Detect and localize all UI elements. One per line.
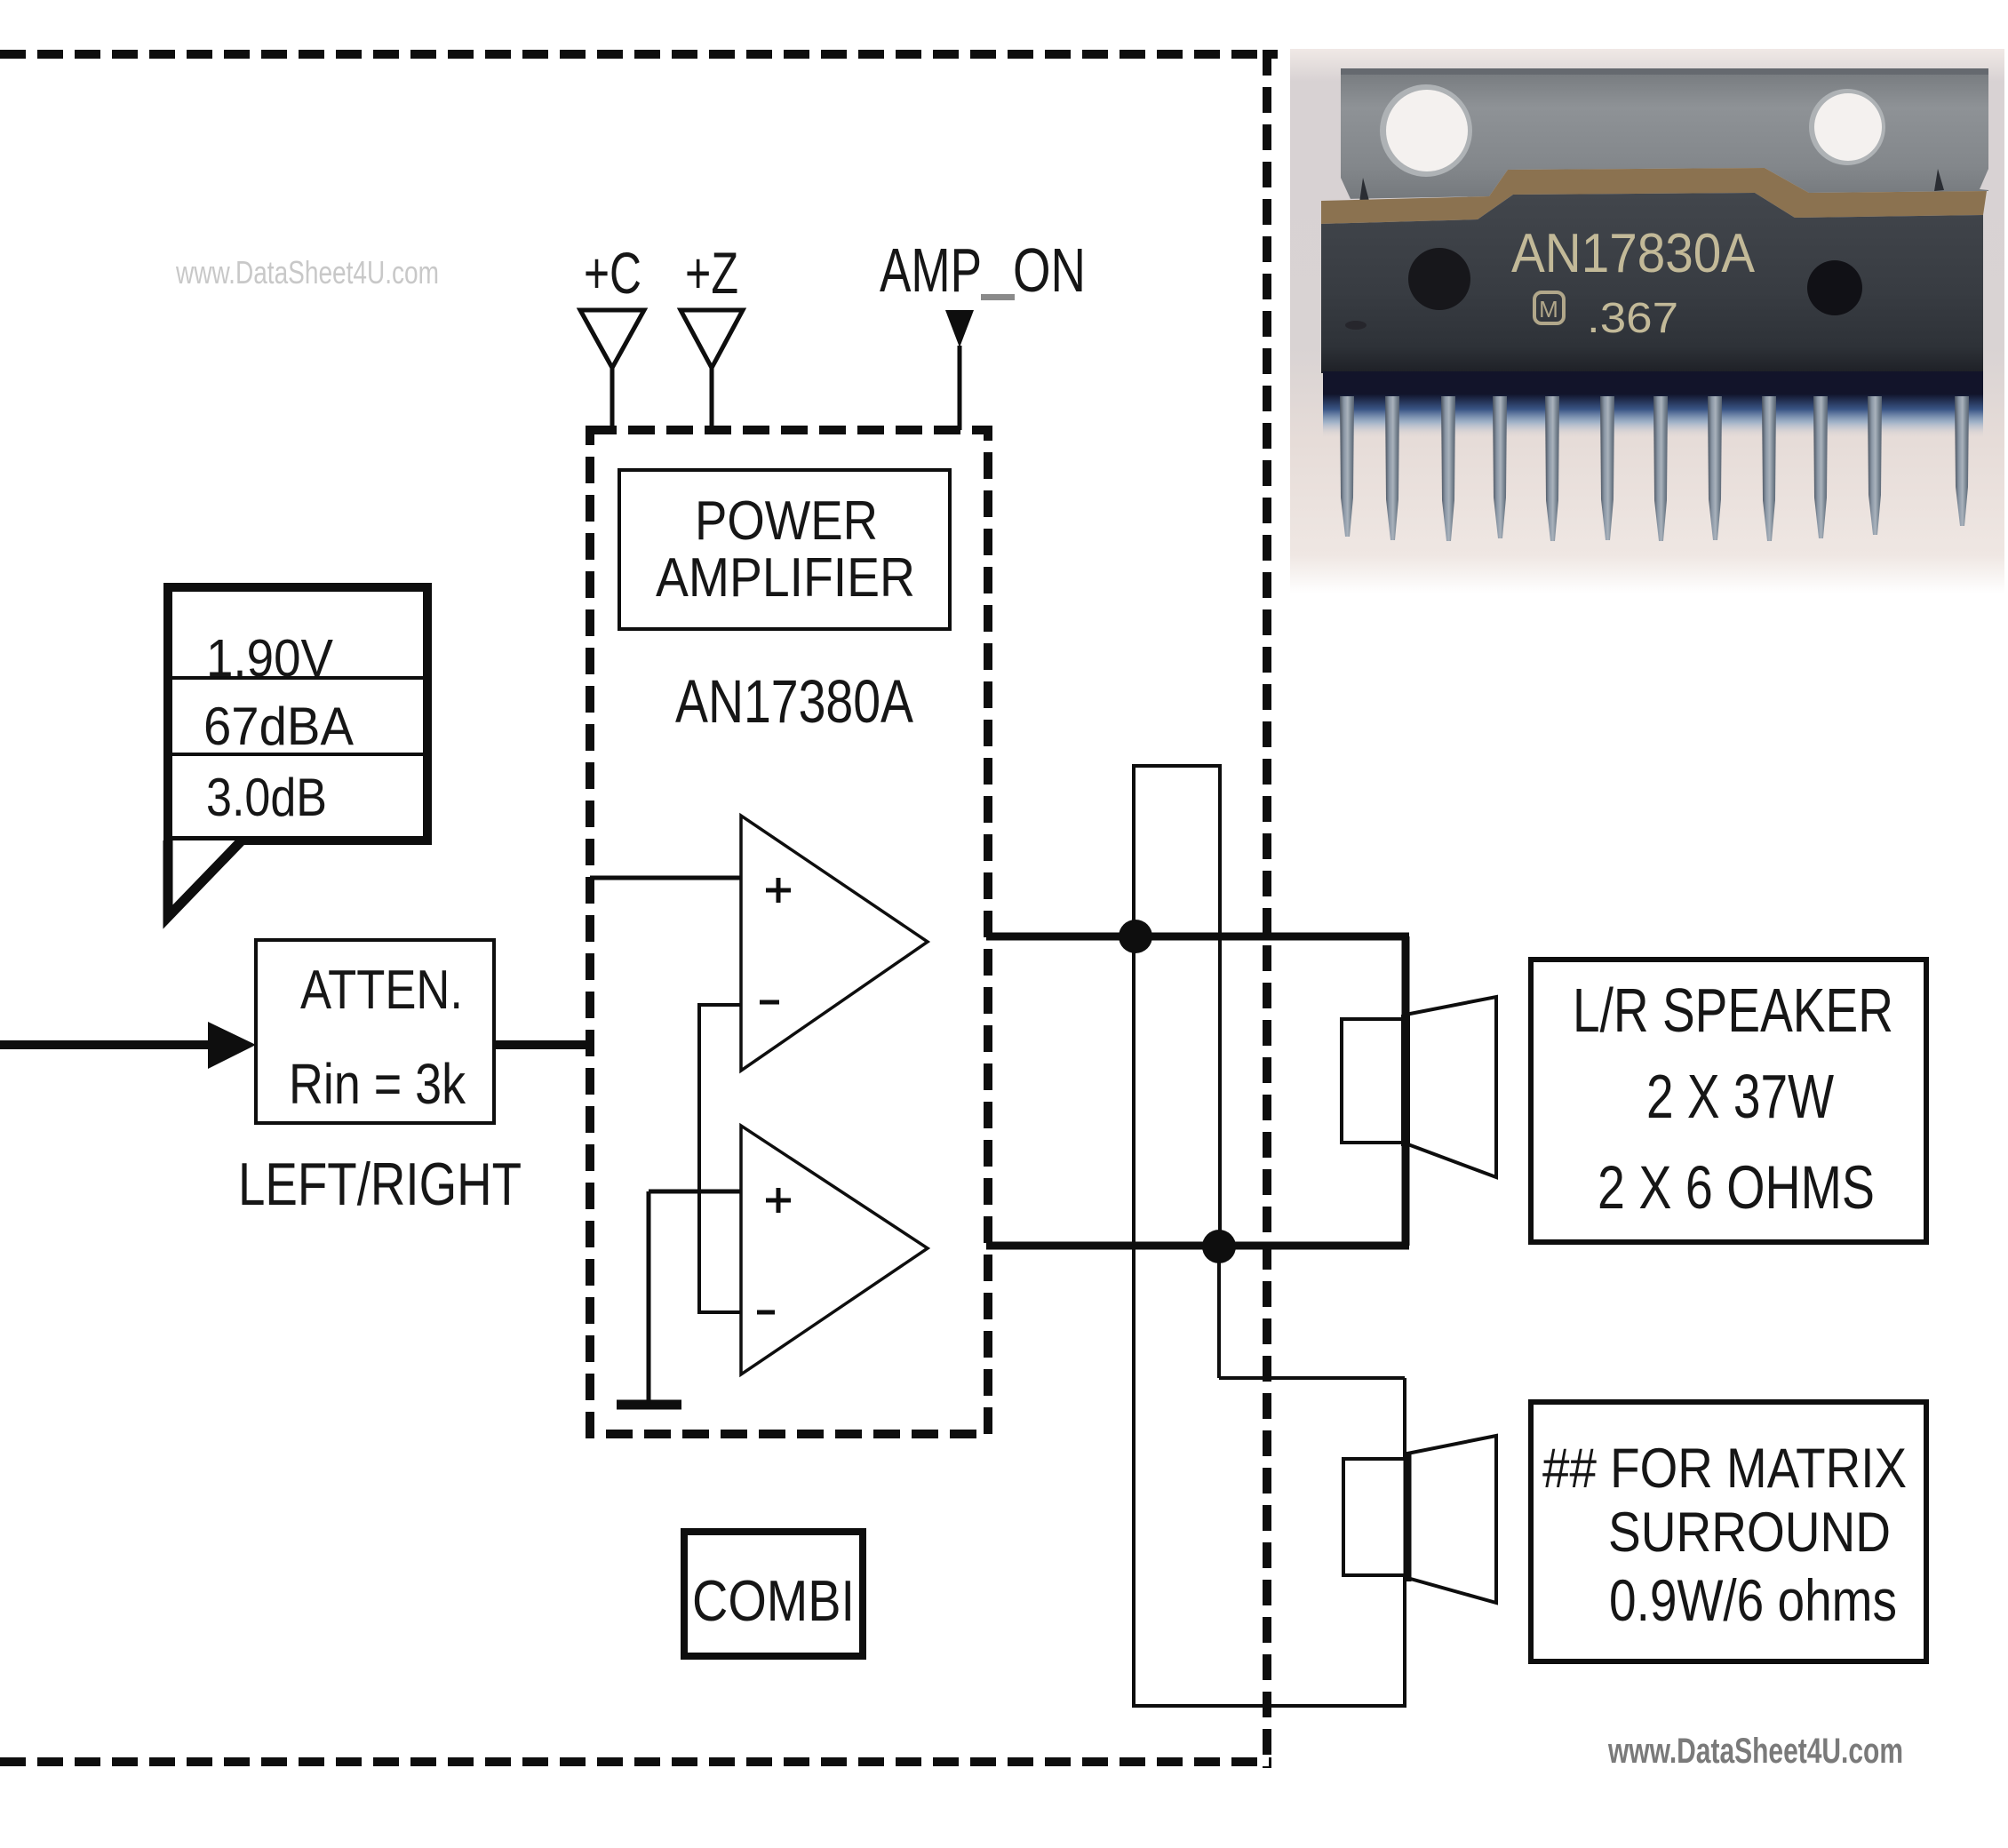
svg-text:0.9W/6 ohms: 0.9W/6 ohms: [1609, 1567, 1897, 1633]
svg-text:2 X 6 OHMS: 2 X 6 OHMS: [1598, 1153, 1875, 1222]
wire: surround loop top bar: [1134, 764, 1220, 768]
svg-text:+C: +C: [584, 240, 641, 306]
svg-text:2 X 37W: 2 X 37W: [1646, 1062, 1834, 1131]
tab hole left: [1380, 84, 1472, 177]
wire: input line left: [0, 1040, 213, 1049]
svg-text:3.0dB: 3.0dB: [206, 768, 327, 827]
svg-text:www.DataSheet4U.com: www.DataSheet4U.com: [1607, 1732, 1903, 1771]
wire: output 1 (top channel): [986, 933, 1409, 941]
pin indent left: [1408, 248, 1470, 310]
photo background: [1290, 49, 2004, 593]
logo M: [1534, 292, 1564, 323]
svg-text:1.90V: 1.90V: [206, 629, 334, 688]
svg-text:Rin = 3k: Rin = 3k: [289, 1052, 466, 1116]
box L/R SPEAKER: [1531, 960, 1926, 1242]
wire: outer dashed frame bottom: [0, 1757, 1271, 1766]
wire: to ground: [647, 1191, 651, 1400]
wire: ATTEN output to amp box: [496, 1040, 590, 1049]
wire: output 2 (bottom channel): [986, 1242, 1409, 1250]
svg-text:67dBA: 67dBA: [203, 697, 354, 756]
wire: speaker drop vertical: [1402, 936, 1410, 1246]
junction dot on output 1: [1119, 920, 1152, 953]
pins: [1340, 396, 1969, 541]
pin indent right: [1807, 260, 1862, 315]
signal AMP_ON: [880, 235, 1086, 430]
wire: op-amp1 + input: [590, 876, 741, 880]
power pin +Z: [681, 240, 743, 430]
svg-text:COMBI: COMBI: [692, 1568, 855, 1633]
svg-text:LEFT/RIGHT: LEFT/RIGHT: [238, 1151, 522, 1218]
wire: surround loop bottom bar: [1132, 1704, 1406, 1708]
svg-text:M: M: [1539, 296, 1558, 323]
box COMBI: [684, 1532, 863, 1656]
op-amp 2 (bottom): [741, 1126, 928, 1374]
junction dot on output 2: [1202, 1230, 1236, 1263]
wire: surround speaker vertical: [1403, 1378, 1406, 1708]
block label POWER AMPLIFIER: [619, 470, 950, 629]
power amplifier dashed box: [590, 430, 988, 1434]
L/R speaker symbol: [1342, 997, 1496, 1177]
box matrix surround: [1531, 1402, 1926, 1661]
wire: jog to surround speaker: [1219, 1376, 1405, 1380]
tab notch right: [1980, 169, 1988, 190]
surround speaker symbol: [1343, 1436, 1496, 1603]
wire: op-amp2 - input: [699, 1310, 741, 1314]
wire: feedback vertical op1- to op2-: [697, 1003, 701, 1314]
callout note box (1.90V / 67dBA / 3.0dB): [168, 587, 427, 917]
svg-text:AN17380A: AN17380A: [675, 667, 913, 736]
svg-text:## FOR MATRIX: ## FOR MATRIX: [1542, 1438, 1907, 1500]
input arrowhead: [208, 1022, 256, 1069]
svg-text:SURROUND: SURROUND: [1608, 1501, 1891, 1564]
svg-text:L/R SPEAKER: L/R SPEAKER: [1573, 976, 1893, 1045]
wire: surround loop left vertical: [1132, 764, 1135, 1708]
tab hole right: [1809, 89, 1885, 165]
svg-text:www.DataSheet4U.com: www.DataSheet4U.com: [175, 254, 439, 291]
heatsink tab: [1341, 68, 1988, 199]
svg-text:AN17830A: AN17830A: [1511, 223, 1756, 284]
power pin +C: [580, 240, 644, 430]
wire: surround loop right-top vertical: [1218, 764, 1222, 1247]
wire: outer dashed frame top: [0, 50, 1278, 59]
svg-text:AMP: AMP: [880, 235, 982, 305]
svg-text:.367: .367: [1587, 295, 1678, 342]
molded body: [1321, 193, 1983, 373]
tab notch left: [1341, 178, 1351, 201]
wire: outer dashed frame right: [1263, 50, 1271, 1768]
svg-text:ON: ON: [1013, 235, 1086, 305]
IC photo: [1290, 49, 2004, 593]
ground: [617, 1400, 681, 1410]
svg-text:ATTEN.: ATTEN.: [300, 960, 463, 1021]
pin root shadow band: [1323, 371, 1983, 398]
wire: op-amp1 - input: [699, 1003, 741, 1007]
op-amp 1 (top): [741, 816, 928, 1071]
block ATTEN Rin=3k: [256, 940, 494, 1123]
wire: from junction dot 2 down: [1217, 1247, 1221, 1378]
svg-text:POWER: POWER: [695, 490, 878, 552]
bevel band: [1321, 168, 1987, 224]
svg-text:+Z: +Z: [685, 240, 738, 306]
svg-text:AMPLIFIER: AMPLIFIER: [656, 547, 915, 609]
small mark: [1345, 321, 1367, 330]
wire: op-amp2 + input: [649, 1190, 741, 1194]
